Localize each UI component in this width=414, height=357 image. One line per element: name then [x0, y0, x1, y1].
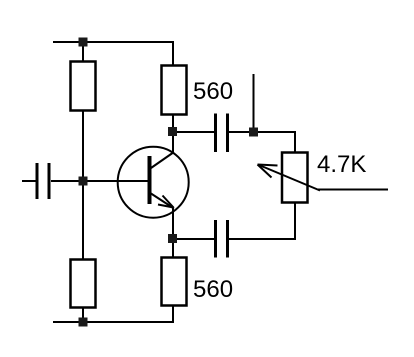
- svg-text:560: 560: [193, 276, 233, 303]
- svg-text:560: 560: [193, 78, 233, 105]
- svg-text:4.7K: 4.7K: [317, 151, 366, 178]
